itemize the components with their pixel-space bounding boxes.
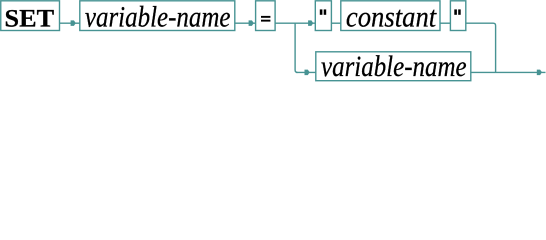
arrowhead into opening quote bbox=[308, 20, 313, 26]
nonterminal box variable-name (bottom) bbox=[316, 50, 471, 83]
wire opening quote to constant bbox=[331, 22, 340, 24]
wire = to branch junction bbox=[275, 22, 315, 24]
nonterminal box variable-name (top) bbox=[80, 1, 235, 34]
nonterminal box constant bbox=[341, 1, 440, 34]
wire variable-name to = bbox=[235, 22, 256, 24]
terminal box = bbox=[256, 1, 276, 31]
wire variable-name (bottom) to end bbox=[471, 71, 546, 73]
arrowhead into variable-name bbox=[71, 20, 76, 26]
wire closing quote to right junction bbox=[466, 23, 496, 72]
wire SET to variable-name bbox=[60, 22, 80, 24]
arrowhead into = bbox=[249, 20, 254, 26]
wire bottom branch into variable-name bbox=[296, 71, 316, 73]
terminal box closing quote bbox=[450, 1, 465, 31]
terminal box SET bbox=[1, 1, 60, 33]
svg-text:SET: SET bbox=[5, 5, 55, 32]
branch junction vertical wire bbox=[295, 23, 297, 72]
wire constant to closing quote bbox=[440, 22, 450, 24]
svg-text:constant: constant bbox=[346, 1, 437, 34]
svg-text:variable-name: variable-name bbox=[85, 1, 231, 34]
arrowhead end of statement bbox=[537, 70, 542, 76]
terminal box opening quote bbox=[315, 1, 331, 31]
arrowhead into variable-name (bottom) bbox=[305, 70, 310, 76]
svg-text:variable-name: variable-name bbox=[321, 50, 467, 83]
